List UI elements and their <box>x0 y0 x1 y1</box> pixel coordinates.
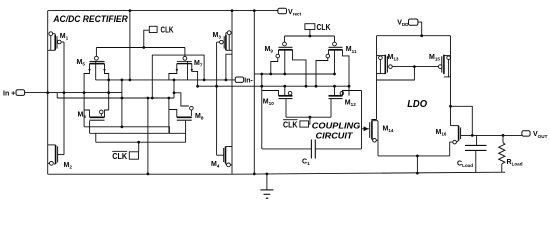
svg-text:In +: In + <box>3 91 15 98</box>
svg-text:COUPLING: COUPLING <box>312 120 361 130</box>
svg-text:CIRCUIT: CIRCUIT <box>316 130 354 140</box>
svg-text:CLK: CLK <box>283 119 298 129</box>
svg-text:CLK: CLK <box>112 151 127 161</box>
svg-text:LDO: LDO <box>407 98 427 110</box>
svg-text:CLK: CLK <box>161 24 174 34</box>
svg-text:CLK: CLK <box>317 22 331 32</box>
svg-text:AC/DC RECTIFIER: AC/DC RECTIFIER <box>52 14 128 24</box>
svg-text:In-: In- <box>244 77 253 84</box>
